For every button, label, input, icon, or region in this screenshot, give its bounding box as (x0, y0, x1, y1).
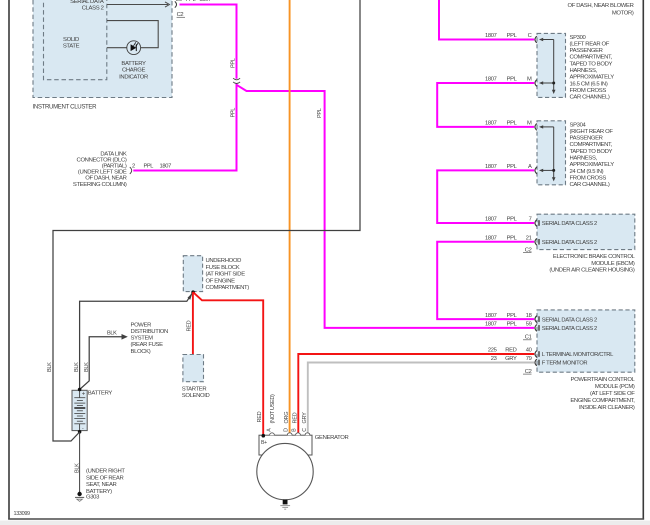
svg-text:SYSTEM: SYSTEM (131, 336, 154, 342)
svg-text:BLK: BLK (47, 362, 53, 372)
svg-text:7: 7 (529, 217, 532, 223)
svg-text:1807: 1807 (485, 77, 497, 83)
svg-text:(UNDER LEFT SIDE: (UNDER LEFT SIDE (78, 170, 127, 176)
svg-text:FUSE BLOCK: FUSE BLOCK (206, 265, 240, 271)
svg-text:COMPARTMENT,: COMPARTMENT, (570, 142, 613, 148)
svg-text:16.5 CM (6.5 IN): 16.5 CM (6.5 IN) (570, 81, 608, 87)
svg-text:B+: B+ (261, 440, 267, 446)
svg-text:24 CM (9.5 IN): 24 CM (9.5 IN) (570, 169, 604, 175)
svg-text:PASSENGER: PASSENGER (570, 136, 603, 142)
svg-text:A: A (267, 428, 273, 432)
svg-text:PPL: PPL (230, 108, 236, 118)
svg-text:ORG: ORG (284, 412, 290, 424)
pin 2 and wire label PPL 1807 (132, 164, 171, 170)
svg-text:CONNECTOR (DLC): CONNECTOR (DLC) (77, 157, 127, 163)
pin C2 (177, 12, 185, 18)
wire SP304 A to EBCM pin 7 (437, 170, 534, 223)
wire label 225 RED (40) (488, 348, 517, 354)
svg-text:(UNDER RIGHT: (UNDER RIGHT (86, 469, 125, 475)
wire RED PCM 40 to generator B (298, 354, 534, 433)
SP304 description (570, 122, 615, 188)
svg-text:PASSENGER: PASSENGER (570, 48, 603, 54)
wire serial data arrow to C2 (107, 2, 170, 7)
svg-text:CLASS 2: CLASS 2 (82, 6, 104, 12)
starter solenoid (182, 355, 210, 399)
svg-text:DISTRIBUTION: DISTRIBUTION (131, 329, 168, 335)
svg-text:ENGINE COMPARTMENT,: ENGINE COMPARTMENT, (570, 398, 635, 404)
svg-text:TAPED TO BODY: TAPED TO BODY (570, 149, 613, 155)
svg-text:HARNESS,: HARNESS, (570, 156, 598, 162)
wire BLK battery positive to underhood fuse block (80, 293, 193, 390)
pin C2 of PCM (523, 369, 532, 375)
svg-text:BLK: BLK (74, 463, 80, 473)
wire label 23 GRY (79) (491, 356, 517, 362)
ground G303 (75, 492, 84, 502)
svg-text:1807: 1807 (485, 164, 497, 170)
svg-text:1807: 1807 (485, 121, 497, 127)
svg-text:F TERM MONITOR: F TERM MONITOR (542, 361, 588, 367)
svg-text:BLOCK): BLOCK) (131, 349, 151, 355)
svg-text:HARNESS,: HARNESS, (570, 68, 598, 74)
svg-text:G303: G303 (86, 495, 100, 501)
svg-text:(UNDER AIR CLEANER HOUSING): (UNDER AIR CLEANER HOUSING) (549, 268, 635, 274)
svg-text:MOTOR): MOTOR) (612, 10, 634, 16)
svg-text:(LEFT REAR OF: (LEFT REAR OF (570, 41, 610, 47)
svg-text:OF DASH, NEAR: OF DASH, NEAR (85, 176, 126, 182)
wire label 1807 PPL (M) (485, 121, 518, 127)
junction generator B+ (262, 434, 266, 438)
underhood fuse block (183, 256, 249, 292)
splice SP304 (535, 121, 566, 185)
svg-text:C: C (302, 428, 308, 432)
wire GRY PCM 79 to generator C (308, 363, 534, 433)
junction battery negative (78, 430, 82, 434)
wire BLK battery positive to power distribution (80, 337, 123, 390)
svg-text:SERIAL DATA CLASS 2: SERIAL DATA CLASS 2 (542, 221, 597, 227)
svg-text:RED: RED (257, 411, 263, 422)
svg-text:(PARTIAL): (PARTIAL) (102, 164, 127, 170)
pin C1 of PCM (523, 335, 532, 341)
wire BLK return from top to battery negative (53, 0, 360, 441)
instrument cluster (33, 0, 173, 111)
svg-text:B: B (292, 428, 298, 432)
svg-text:1807: 1807 (485, 236, 497, 242)
svg-text:SIDE OF REAR: SIDE OF REAR (86, 475, 123, 481)
svg-text:FROM CROSS: FROM CROSS (570, 88, 607, 94)
wire label 1807 PPL (C) (485, 33, 518, 39)
inline connector on PPL wire (233, 78, 240, 83)
svg-text:UNDERHOOD: UNDERHOOD (206, 258, 242, 264)
SP300 description (570, 35, 615, 101)
svg-text:PPL: PPL (507, 313, 518, 319)
wire label 1807 PPL (M) (485, 77, 518, 83)
svg-text:FROM CROSS: FROM CROSS (570, 175, 607, 181)
svg-text:APPROXIMATELY: APPROXIMATELY (570, 162, 615, 168)
top-right cut label (568, 3, 634, 16)
svg-text:A: A (528, 164, 532, 170)
junction at fuse block (191, 290, 195, 294)
svg-text:BATTERY: BATTERY (121, 61, 146, 67)
junction battery positive (78, 388, 82, 392)
svg-text:STARTER: STARTER (182, 386, 207, 392)
splice SP300 (535, 33, 566, 97)
svg-text:SERIAL DATA CLASS 2: SERIAL DATA CLASS 2 (542, 326, 597, 332)
svg-text:PPL: PPL (230, 58, 236, 68)
svg-text:20 PPL 1807: 20 PPL 1807 (176, 0, 211, 3)
svg-text:1807: 1807 (485, 322, 497, 328)
svg-text:GRY: GRY (505, 356, 517, 362)
wire RED fuse block to starter solenoid (192, 292, 194, 354)
wire label 1807 PPL (18) (485, 313, 518, 319)
svg-text:40: 40 (526, 348, 532, 354)
wire label 1807 PPL (A) (485, 164, 518, 170)
svg-text:PPL: PPL (144, 164, 154, 170)
svg-text:18: 18 (526, 313, 532, 319)
svg-text:M: M (527, 121, 532, 127)
ground G303 labels (86, 469, 125, 501)
svg-text:M: M (527, 77, 532, 83)
svg-text:CAR CHANNEL): CAR CHANNEL) (570, 182, 610, 188)
svg-text:BLK: BLK (74, 362, 80, 372)
module PCM (535, 310, 635, 372)
svg-text:PPL: PPL (507, 77, 518, 83)
svg-text:CHARGE: CHARGE (122, 68, 146, 74)
svg-text:2: 2 (132, 164, 135, 170)
wire label 1807 PPL (21) (485, 236, 518, 242)
svg-text:BATTERY: BATTERY (88, 390, 113, 396)
svg-text:COMPARTMENT,: COMPARTMENT, (570, 55, 613, 61)
wire ORG from top to generator D (289, 0, 291, 433)
svg-text:MODULE (PCM): MODULE (PCM) (595, 384, 635, 390)
svg-text:OF DASH, NEAR BLOWER: OF DASH, NEAR BLOWER (568, 3, 634, 9)
wire PPL 1807 from cluster C2 to bus (magenta) (180, 5, 237, 79)
svg-text:POWER: POWER (131, 322, 152, 328)
svg-text:APPROXIMATELY: APPROXIMATELY (570, 75, 615, 81)
wire BLK battery negative to ground G303 (79, 432, 81, 492)
svg-text:D: D (284, 428, 290, 432)
indicator lamp: battery charge indicator (107, 21, 158, 81)
svg-text:RED: RED (505, 348, 516, 354)
svg-text:SOLID: SOLID (63, 37, 79, 43)
connector at instrument cluster C2 (175, 1, 177, 7)
svg-text:SP300: SP300 (570, 35, 587, 41)
svg-text:23: 23 (491, 356, 497, 362)
wire branch to serial data bus right (237, 85, 535, 328)
svg-text:RED: RED (292, 412, 298, 423)
svg-text:OF ENGINE: OF ENGINE (206, 278, 236, 284)
svg-text:(RIGHT REAR OF: (RIGHT REAR OF (570, 129, 614, 135)
svg-text:INSTRUMENT CLUSTER: INSTRUMENT CLUSTER (33, 104, 98, 111)
svg-text:GRY: GRY (302, 412, 308, 424)
data link connector DLC (73, 151, 132, 188)
svg-text:1807: 1807 (485, 33, 497, 39)
svg-text:(AT LEFT SIDE OF: (AT LEFT SIDE OF (590, 391, 635, 397)
svg-text:21: 21 (526, 236, 532, 242)
power distribution system label (131, 322, 168, 354)
svg-text:PPL: PPL (507, 121, 518, 127)
svg-text:(NOT USED): (NOT USED) (270, 394, 276, 424)
svg-text:79: 79 (526, 356, 532, 362)
battery (72, 390, 112, 432)
svg-text:STATE: STATE (63, 43, 80, 49)
svg-text:1807: 1807 (160, 164, 172, 170)
svg-text:BLK: BLK (107, 330, 117, 336)
svg-text:1807: 1807 (485, 217, 497, 223)
svg-text:C: C (528, 33, 532, 39)
svg-text:SERIAL DATA CLASS 2: SERIAL DATA CLASS 2 (542, 240, 597, 246)
wire from top connector to SP300 pin C (439, 0, 534, 40)
module EBCM (535, 214, 635, 249)
svg-text:PPL: PPL (507, 217, 518, 223)
svg-text:TAPED TO BODY: TAPED TO BODY (570, 61, 613, 67)
svg-text:L TERMINAL MONITOR/CTRL: L TERMINAL MONITOR/CTRL (542, 352, 614, 358)
svg-text:INDICATOR: INDICATOR (119, 75, 148, 81)
svg-text:PPL: PPL (507, 236, 518, 242)
PCM description (570, 377, 635, 411)
EBCM description (549, 254, 635, 274)
svg-text:PPL: PPL (507, 164, 518, 170)
svg-text:GENERATOR: GENERATOR (315, 435, 349, 441)
svg-text:PPL: PPL (507, 33, 518, 39)
svg-text:225: 225 (488, 348, 497, 354)
svg-text:ELECTRONIC BRAKE CONTROL: ELECTRONIC BRAKE CONTROL (553, 254, 636, 260)
svg-text:PPL: PPL (507, 322, 518, 328)
svg-text:(AT RIGHT SIDE: (AT RIGHT SIDE (206, 272, 246, 278)
svg-text:1807: 1807 (485, 313, 497, 319)
svg-text:RED: RED (187, 320, 193, 331)
svg-text:STEERING COLUMN): STEERING COLUMN) (73, 182, 127, 188)
svg-text:SERIAL DATA CLASS 2: SERIAL DATA CLASS 2 (542, 317, 597, 323)
solid state module (44, 0, 107, 80)
svg-text:DATA LINK: DATA LINK (100, 151, 127, 157)
svg-text:SERIAL DATA: SERIAL DATA (70, 0, 104, 5)
svg-text:SP304: SP304 (570, 122, 587, 128)
svg-text:COMPARTMENT): COMPARTMENT) (206, 285, 250, 291)
wire RED fuse block to generator B+ (193, 292, 263, 435)
wire label 1807 PPL (59) (485, 322, 518, 328)
wire SP300 M to SP304 M (437, 83, 534, 127)
svg-text:PPL: PPL (317, 108, 323, 118)
label serial data class 2 (70, 0, 104, 12)
wire PPL below inline connector, branch to DLC and PCM (133, 83, 236, 170)
svg-text:BLK: BLK (84, 362, 90, 372)
svg-text:CAR CHANNEL): CAR CHANNEL) (570, 95, 610, 101)
ground at generator (280, 500, 290, 510)
pin C2 of EBCM (523, 247, 532, 253)
svg-text:MODULE (EBCM): MODULE (EBCM) (591, 261, 635, 267)
svg-text:SEAT, NEAR: SEAT, NEAR (86, 482, 117, 488)
generator GEN (257, 433, 349, 500)
wire label 1807 PPL (7) (485, 217, 518, 223)
svg-text:INSIDE AIR CLEANER): INSIDE AIR CLEANER) (579, 405, 635, 411)
svg-text:59: 59 (526, 322, 532, 328)
svg-text:133099: 133099 (14, 511, 31, 517)
wire EBCM pin 21 to PCM pin 18 (437, 242, 534, 319)
svg-text:SOLENOID: SOLENOID (182, 393, 210, 399)
svg-text:POWERTRAIN CONTROL: POWERTRAIN CONTROL (571, 377, 636, 383)
svg-text:(REAR FUSE: (REAR FUSE (131, 342, 164, 348)
